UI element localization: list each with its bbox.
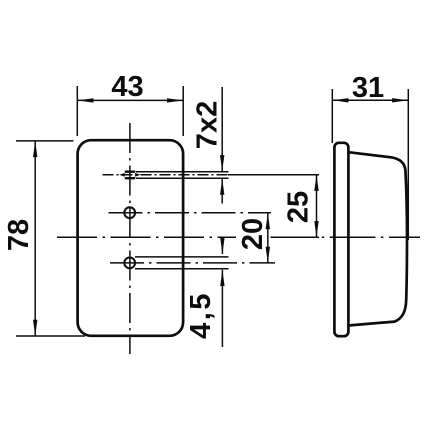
side view lamp body (348, 152, 407, 325)
bottom hole centerline (110, 262, 275, 264)
dimension 4,5 arrow upper (220, 238, 224, 254)
slot extension line bottom (136, 177, 229, 179)
svg-text:4,5: 4,5 (185, 291, 217, 339)
vertical centerline of front view (129, 123, 131, 354)
dimension 7x2 arrow upper (220, 155, 224, 171)
bottom hole (124, 258, 135, 269)
dimension 43 extension right (182, 86, 184, 136)
dimension 31 arrow right (392, 98, 408, 102)
dimension 25 arrow top (314, 175, 318, 191)
slot 7x2 top edge (125, 170, 136, 172)
slot extension line top (136, 171, 229, 173)
dimension 7x2 arrow lower (220, 179, 224, 195)
dimension 7x2 line upper (221, 87, 223, 171)
slot 7x2 bottom edge (125, 177, 136, 179)
dimension 4,5 arrow lower (220, 270, 224, 286)
dimension 31 extension right (407, 89, 409, 240)
svg-text:7x2: 7x2 (192, 101, 224, 149)
bottom hole tangent extension bottom (135, 268, 229, 270)
side view flange (334, 143, 348, 336)
dimension 25 line (316, 175, 318, 238)
dimension 78 arrow bottom (33, 320, 37, 336)
dimension 4,5 line upper (221, 237, 223, 254)
middle hole centerline (109, 212, 272, 214)
svg-text:25: 25 (283, 191, 315, 223)
dimension 20 arrow bottom (266, 247, 270, 263)
dimension 78 line (34, 141, 36, 336)
dimension 7x2 line lower (221, 179, 223, 204)
front view outline (78, 140, 184, 336)
dimension 78 arrow top (33, 141, 37, 157)
slot length arrow left (119, 173, 124, 177)
dimension 31 line (332, 99, 408, 101)
middle hole (124, 207, 135, 218)
dimension 43 arrow right (167, 98, 183, 102)
extension of slot centerline to 25 dim (228, 174, 319, 176)
dimension 31 arrow left (332, 98, 348, 102)
dimension 31 extension left (331, 89, 333, 143)
dimension 43 extension left (76, 86, 78, 136)
svg-text:43: 43 (111, 71, 143, 103)
dimension 43 arrow left (77, 98, 93, 102)
dimension 78 extension top (16, 140, 74, 142)
dimension 25 arrow bottom (314, 221, 318, 237)
dimension 25 extension bottom (277, 236, 319, 238)
bottom hole tangent extension top (135, 256, 229, 258)
dimension 43 line (77, 99, 183, 101)
slot length arrow right (135, 173, 140, 177)
dimension 4,5 line lower (221, 270, 223, 347)
dimension 20 line (267, 213, 269, 263)
dimension 78 extension bottom (16, 335, 85, 337)
slot centerline (103, 174, 231, 176)
svg-text:78: 78 (3, 219, 35, 251)
svg-text:20: 20 (237, 218, 269, 250)
svg-text:31: 31 (352, 72, 384, 104)
main horizontal centerline (57, 236, 236, 238)
dimension 20 arrow top (266, 213, 270, 229)
